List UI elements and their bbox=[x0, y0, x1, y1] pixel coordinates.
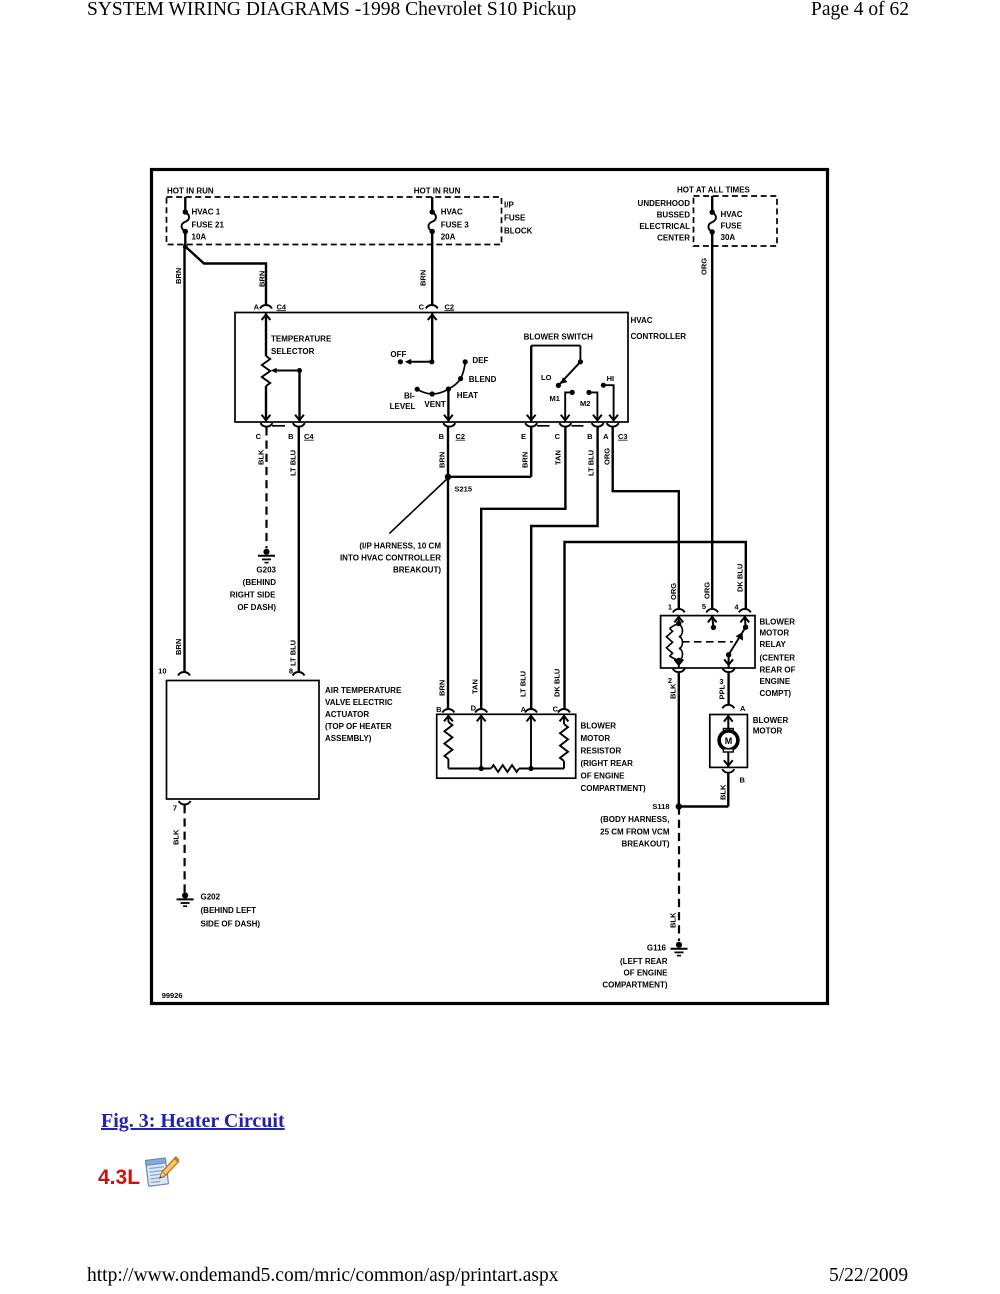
svg-text:FUSE: FUSE bbox=[504, 214, 526, 223]
svg-text:10A: 10A bbox=[192, 232, 207, 241]
svg-text:I/P: I/P bbox=[504, 201, 514, 210]
svg-text:ACTUATOR: ACTUATOR bbox=[325, 710, 369, 719]
svg-text:PPL: PPL bbox=[718, 684, 727, 699]
svg-text:B: B bbox=[436, 705, 442, 714]
svg-text:DK BLU: DK BLU bbox=[736, 564, 745, 592]
svg-text:4: 4 bbox=[734, 603, 739, 612]
svg-text:(CENTER: (CENTER bbox=[760, 654, 796, 663]
svg-text:C: C bbox=[256, 432, 262, 441]
svg-text:BLOWER: BLOWER bbox=[581, 721, 617, 730]
svg-text:(BODY HARNESS,: (BODY HARNESS, bbox=[600, 815, 669, 824]
svg-text:20A: 20A bbox=[441, 232, 456, 241]
svg-text:OF ENGINE: OF ENGINE bbox=[581, 771, 626, 780]
svg-text:BLK: BLK bbox=[669, 912, 678, 928]
svg-text:VENT: VENT bbox=[424, 400, 445, 409]
svg-text:RELAY: RELAY bbox=[760, 640, 787, 649]
svg-text:S215: S215 bbox=[455, 484, 473, 493]
svg-text:COMPT): COMPT) bbox=[760, 689, 792, 698]
svg-text:ASSEMBLY): ASSEMBLY) bbox=[325, 734, 372, 743]
svg-text:E: E bbox=[521, 432, 526, 441]
svg-text:DEF: DEF bbox=[472, 356, 488, 365]
svg-text:BRN: BRN bbox=[521, 452, 530, 468]
svg-text:INTO HVAC CONTROLLER: INTO HVAC CONTROLLER bbox=[340, 554, 441, 563]
svg-text:HVAC 1: HVAC 1 bbox=[192, 208, 221, 217]
svg-text:ORG: ORG bbox=[669, 583, 678, 600]
svg-text:BLOCK: BLOCK bbox=[504, 227, 533, 236]
svg-text:LEVEL: LEVEL bbox=[390, 402, 416, 411]
svg-text:C4: C4 bbox=[277, 302, 287, 311]
svg-text:HVAC: HVAC bbox=[721, 210, 743, 219]
svg-text:C: C bbox=[419, 302, 425, 311]
svg-text:COMPARTMENT): COMPARTMENT) bbox=[581, 784, 647, 793]
svg-text:LT BLU: LT BLU bbox=[587, 450, 596, 476]
svg-text:G116: G116 bbox=[647, 943, 667, 952]
svg-text:RESISTOR: RESISTOR bbox=[581, 746, 622, 755]
svg-text:ORG: ORG bbox=[703, 582, 712, 599]
svg-text:(I/P HARNESS, 10 CM: (I/P HARNESS, 10 CM bbox=[359, 542, 441, 551]
svg-text:A: A bbox=[521, 705, 527, 714]
svg-text:MOTOR: MOTOR bbox=[760, 628, 790, 637]
svg-text:(RIGHT REAR: (RIGHT REAR bbox=[581, 759, 634, 768]
svg-text:B: B bbox=[587, 432, 593, 441]
svg-text:BUSSED: BUSSED bbox=[657, 211, 691, 220]
svg-text:LT BLU: LT BLU bbox=[289, 640, 298, 666]
svg-text:BLOWER: BLOWER bbox=[753, 716, 789, 725]
svg-text:COMPARTMENT): COMPARTMENT) bbox=[602, 980, 668, 989]
svg-text:REAR OF: REAR OF bbox=[760, 666, 796, 675]
svg-text:99926: 99926 bbox=[162, 991, 183, 1000]
svg-text:FUSE 3: FUSE 3 bbox=[441, 220, 470, 229]
svg-text:(BEHIND: (BEHIND bbox=[243, 578, 277, 587]
svg-text:A: A bbox=[254, 302, 260, 311]
svg-text:BRN: BRN bbox=[438, 452, 447, 468]
svg-text:A: A bbox=[603, 432, 609, 441]
svg-text:3: 3 bbox=[719, 677, 723, 686]
svg-text:(TOP OF HEATER: (TOP OF HEATER bbox=[325, 722, 392, 731]
svg-text:BRN: BRN bbox=[419, 270, 428, 286]
svg-text:ENGINE: ENGINE bbox=[760, 677, 791, 686]
svg-text:BRN: BRN bbox=[258, 271, 267, 287]
svg-text:BRN: BRN bbox=[174, 268, 183, 284]
svg-text:BLK: BLK bbox=[257, 449, 266, 465]
svg-text:FUSE 21: FUSE 21 bbox=[192, 220, 225, 229]
svg-text:MOTOR: MOTOR bbox=[581, 734, 611, 743]
svg-text:HI: HI bbox=[607, 374, 615, 383]
svg-text:DK BLU: DK BLU bbox=[553, 669, 562, 697]
svg-text:G202: G202 bbox=[201, 892, 221, 901]
svg-text:TAN: TAN bbox=[554, 450, 563, 465]
svg-text:BLK: BLK bbox=[719, 784, 728, 800]
svg-text:MOTOR: MOTOR bbox=[753, 727, 783, 736]
svg-text:VALVE ELECTRIC: VALVE ELECTRIC bbox=[325, 698, 393, 707]
svg-text:25 CM FROM VCM: 25 CM FROM VCM bbox=[600, 828, 670, 837]
svg-text:M: M bbox=[725, 736, 733, 746]
svg-text:SELECTOR: SELECTOR bbox=[271, 347, 315, 356]
svg-text:C4: C4 bbox=[304, 432, 314, 441]
svg-text:OF DASH): OF DASH) bbox=[237, 603, 276, 612]
svg-text:C3: C3 bbox=[618, 432, 628, 441]
svg-text:SIDE OF DASH): SIDE OF DASH) bbox=[201, 920, 261, 929]
svg-text:FUSE: FUSE bbox=[721, 221, 743, 230]
svg-text:G203: G203 bbox=[256, 566, 276, 575]
svg-text:D: D bbox=[471, 704, 477, 713]
svg-text:UNDERHOOD: UNDERHOOD bbox=[638, 199, 691, 208]
svg-text:C2: C2 bbox=[445, 302, 455, 311]
svg-text:OF ENGINE: OF ENGINE bbox=[623, 969, 668, 978]
svg-text:A: A bbox=[740, 704, 746, 713]
svg-text:ELECTRICAL: ELECTRICAL bbox=[639, 222, 690, 231]
svg-text:M1: M1 bbox=[550, 394, 560, 403]
svg-text:B: B bbox=[288, 432, 294, 441]
svg-text:BI-: BI- bbox=[404, 392, 415, 401]
svg-text:BLK: BLK bbox=[172, 829, 181, 845]
svg-text:30A: 30A bbox=[721, 233, 736, 242]
svg-text:HVAC: HVAC bbox=[441, 208, 463, 217]
svg-text:HVAC: HVAC bbox=[631, 316, 653, 325]
svg-text:BRN: BRN bbox=[174, 639, 183, 655]
svg-text:BLOWER SWITCH: BLOWER SWITCH bbox=[524, 333, 594, 342]
svg-text:BREAKOUT): BREAKOUT) bbox=[622, 839, 670, 848]
svg-text:HOT AT ALL TIMES: HOT AT ALL TIMES bbox=[677, 185, 751, 194]
svg-text:LO: LO bbox=[541, 373, 552, 382]
svg-text:M2: M2 bbox=[580, 399, 590, 408]
svg-text:BRN: BRN bbox=[438, 680, 447, 696]
svg-text:BLK: BLK bbox=[669, 683, 678, 699]
svg-text:7: 7 bbox=[173, 803, 177, 812]
svg-text:HOT IN RUN: HOT IN RUN bbox=[167, 187, 214, 196]
svg-text:8: 8 bbox=[289, 666, 293, 675]
svg-text:HOT IN RUN: HOT IN RUN bbox=[414, 187, 461, 196]
svg-text:RIGHT SIDE: RIGHT SIDE bbox=[230, 590, 276, 599]
svg-text:TEMPERATURE: TEMPERATURE bbox=[271, 335, 332, 344]
svg-text:LT BLU: LT BLU bbox=[289, 450, 298, 476]
svg-text:CENTER: CENTER bbox=[657, 234, 690, 243]
svg-text:10: 10 bbox=[158, 666, 166, 675]
svg-text:B: B bbox=[740, 776, 746, 785]
svg-text:ORG: ORG bbox=[700, 258, 709, 275]
svg-text:1: 1 bbox=[668, 603, 672, 612]
svg-text:C2: C2 bbox=[456, 432, 466, 441]
svg-text:BLEND: BLEND bbox=[469, 375, 497, 384]
svg-text:HEAT: HEAT bbox=[457, 391, 478, 400]
svg-text:(LEFT REAR: (LEFT REAR bbox=[620, 957, 668, 966]
svg-text:5: 5 bbox=[702, 602, 706, 611]
svg-text:B: B bbox=[439, 432, 445, 441]
svg-text:C: C bbox=[555, 432, 561, 441]
svg-text:TAN: TAN bbox=[471, 679, 480, 694]
svg-text:(BEHIND LEFT: (BEHIND LEFT bbox=[201, 906, 257, 915]
svg-text:BREAKOUT): BREAKOUT) bbox=[393, 566, 441, 575]
svg-text:AIR TEMPERATURE: AIR TEMPERATURE bbox=[325, 686, 402, 695]
svg-text:ORG: ORG bbox=[603, 448, 612, 465]
svg-text:CONTROLLER: CONTROLLER bbox=[631, 332, 687, 341]
svg-text:OFF: OFF bbox=[390, 350, 406, 359]
svg-text:C: C bbox=[553, 705, 559, 714]
svg-text:LT BLU: LT BLU bbox=[519, 671, 528, 697]
svg-text:S118: S118 bbox=[652, 802, 669, 811]
svg-text:BLOWER: BLOWER bbox=[760, 617, 796, 626]
